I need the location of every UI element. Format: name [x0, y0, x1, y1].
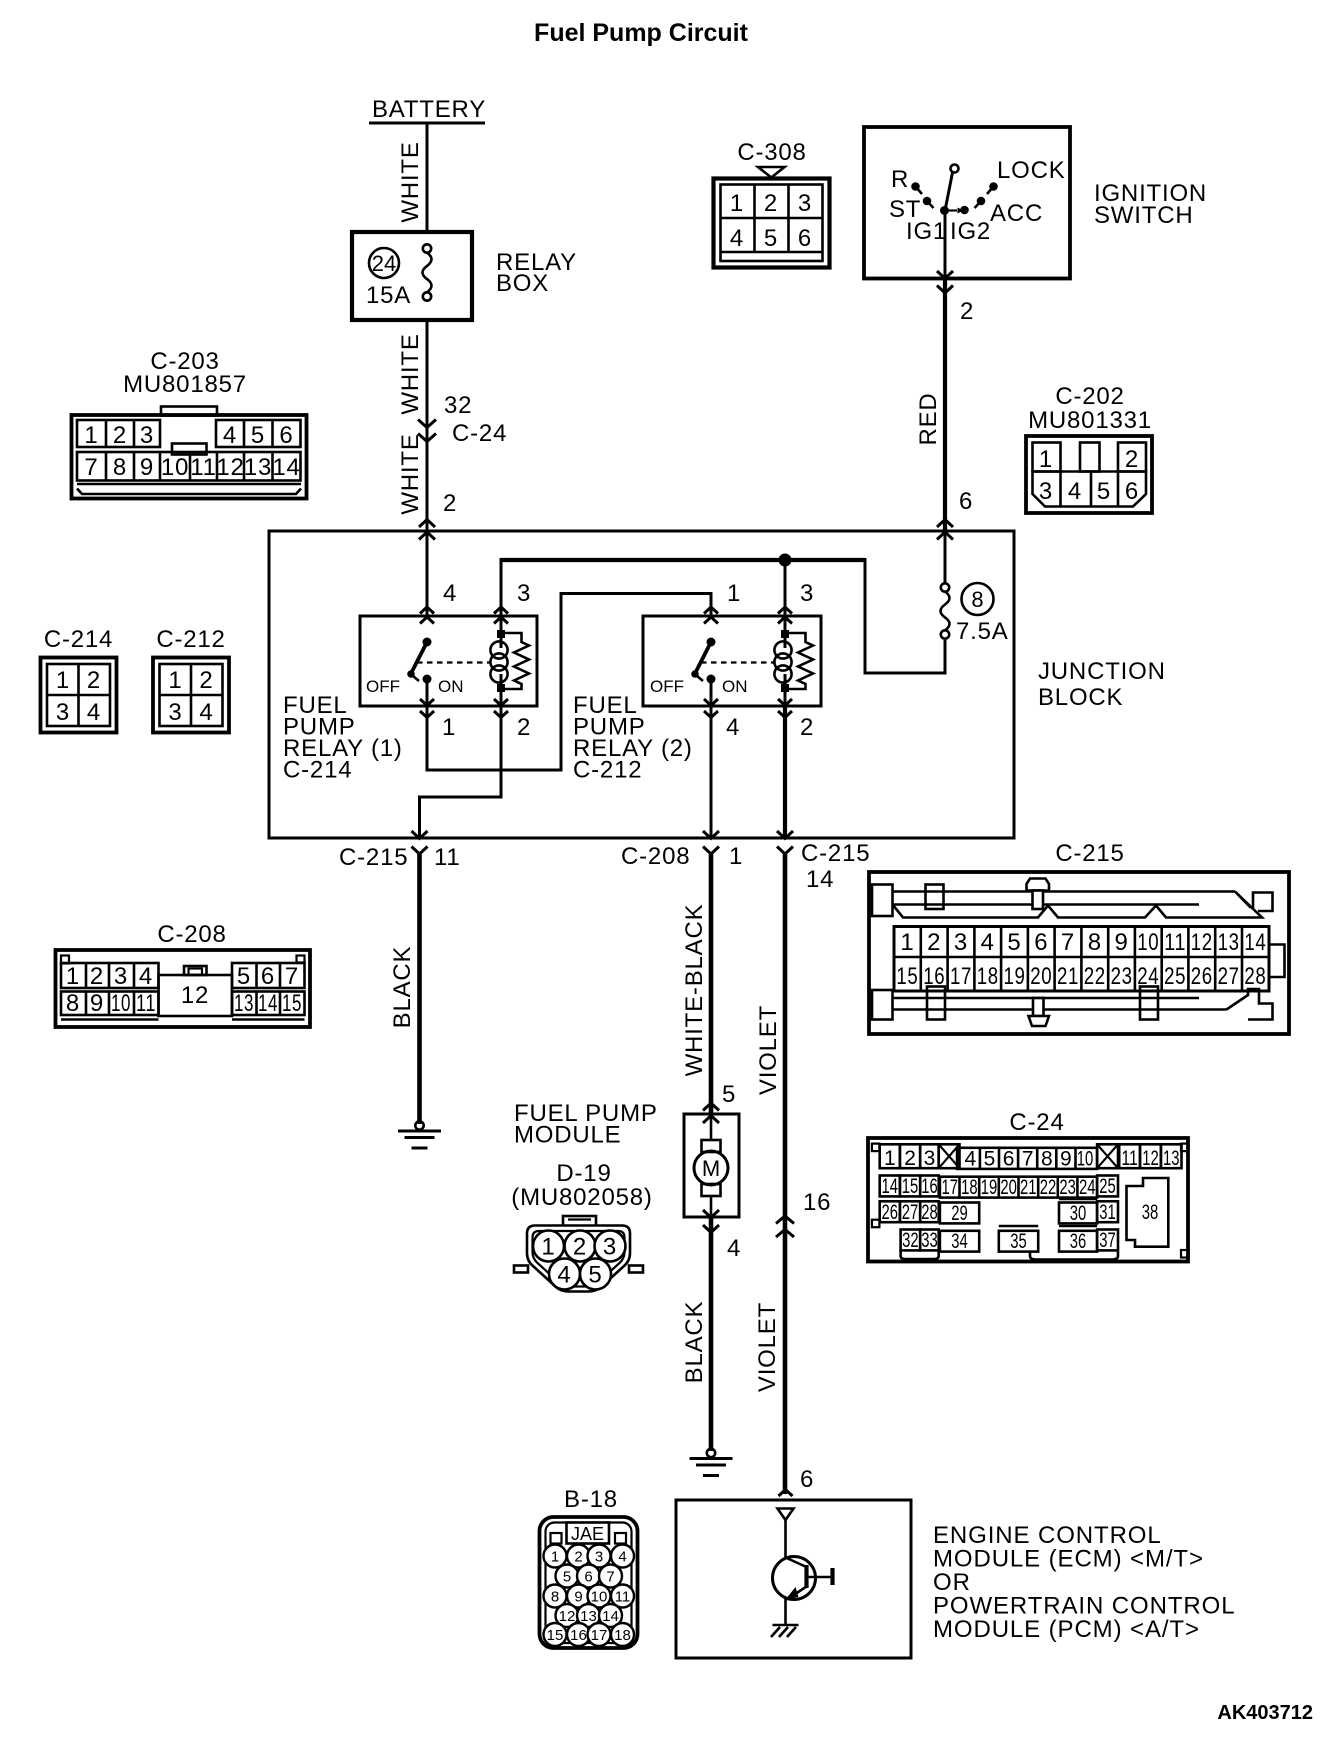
svg-text:ON: ON: [438, 677, 464, 696]
wire: bus to relay2 pin 3: [784, 560, 787, 616]
svg-text:9: 9: [90, 990, 104, 1017]
D-19 pin circles: [533, 1231, 626, 1290]
svg-text:38: 38: [1142, 1201, 1159, 1224]
svg-text:8: 8: [971, 587, 983, 612]
svg-text:5: 5: [563, 1569, 571, 1586]
B-18 pin circles row 5: [544, 1623, 635, 1646]
svg-text:ACC: ACC: [990, 200, 1043, 227]
svg-text:6: 6: [1034, 929, 1048, 956]
svg-text:C-208: C-208: [621, 843, 690, 870]
fuel pump relay 2 box: [643, 616, 821, 706]
C-24 pin cells row 1 (1 2 3): [880, 1144, 939, 1170]
svg-text:3: 3: [595, 1549, 603, 1566]
label WHITE (below C-24): [397, 433, 424, 514]
thick bus wire from relay coils to fuse 8: [501, 558, 945, 673]
svg-text:20: 20: [1030, 963, 1052, 990]
svg-text:3: 3: [140, 422, 154, 449]
relay 1 switch: [407, 638, 431, 707]
svg-text:9: 9: [140, 454, 154, 481]
svg-text:ON: ON: [722, 677, 748, 696]
C-214 pin numbers: [56, 667, 101, 726]
relay box: [352, 232, 472, 320]
ignition switch contact R: [911, 182, 922, 194]
chevrons: out of fuel pump module: [703, 1210, 719, 1233]
connector C-24 title (body): [1009, 1109, 1064, 1136]
svg-text:4: 4: [727, 1235, 741, 1262]
chevrons: red wire into junction block: [937, 520, 953, 540]
svg-text:30: 30: [1070, 1202, 1087, 1225]
svg-text:C-214: C-214: [44, 626, 113, 653]
svg-text:BLOCK: BLOCK: [1038, 684, 1123, 711]
C-24 pin cells row 2 (14 15 16): [880, 1175, 939, 1198]
svg-text:IG2: IG2: [950, 218, 991, 245]
C-203 pin cells row 1 left: [77, 420, 160, 447]
label VIOLET (upper): [755, 1005, 782, 1095]
svg-text:13: 13: [1163, 1147, 1180, 1170]
svg-text:19: 19: [1004, 963, 1026, 990]
pin 1 label (relay1): [442, 714, 456, 741]
pin 2 label (relay1): [517, 714, 531, 741]
svg-text:8: 8: [551, 1589, 559, 1606]
svg-text:12: 12: [216, 454, 244, 481]
svg-text:VIOLET: VIOLET: [755, 1005, 782, 1095]
svg-text:7: 7: [1022, 1148, 1034, 1171]
svg-text:21: 21: [1057, 963, 1079, 990]
ignition switch contact ST: [923, 197, 934, 208]
svg-text:6: 6: [1125, 478, 1139, 505]
svg-text:5: 5: [764, 225, 778, 252]
pin 4 label (fuel pump): [727, 1235, 741, 1262]
svg-text:29: 29: [951, 1202, 968, 1225]
svg-text:4: 4: [730, 225, 744, 252]
chevrons: relay2 pin 1: [704, 607, 718, 624]
wire: C-208 1 to fuel pump module (WHITE-BLACK): [709, 854, 714, 1114]
C-215 pin grid: [894, 927, 1269, 992]
battery terminal: [369, 96, 486, 123]
C-212 pin numbers: [168, 667, 213, 726]
C-208 center cell 12: [159, 966, 233, 1016]
ignition switch box: [864, 127, 1070, 279]
svg-text:16: 16: [570, 1627, 587, 1644]
connector C-208 body outline: [56, 950, 311, 1027]
C-24 pin cell 37: [1097, 1229, 1118, 1252]
svg-text:VIOLET: VIOLET: [754, 1302, 781, 1392]
wire: relay1 pin1 to relay2 pin1: [427, 594, 711, 771]
svg-text:5: 5: [237, 963, 251, 990]
svg-text:20: 20: [1000, 1176, 1017, 1199]
svg-text:2: 2: [573, 1234, 587, 1261]
fuel pump module box: [684, 1114, 739, 1217]
C-24 pin cells row 2 (17-24): [940, 1176, 1097, 1199]
pin 2 label (ignition exit): [960, 298, 974, 325]
svg-text:C-215: C-215: [1055, 840, 1124, 867]
svg-text:3: 3: [924, 1147, 936, 1170]
wire: bus to relay1 pin 3: [500, 558, 503, 616]
ignition switch contact ACC: [975, 197, 986, 208]
svg-text:(MU802058): (MU802058): [511, 1184, 652, 1211]
C-215 pin numbers row 2: [896, 963, 1266, 990]
pin 32 label: [444, 392, 472, 419]
svg-text:M: M: [702, 1156, 720, 1181]
pin 5 label (fuel pump): [722, 1081, 736, 1108]
svg-text:14: 14: [1244, 929, 1266, 956]
connector D-19 label: [511, 1160, 652, 1211]
svg-text:35: 35: [1010, 1230, 1027, 1253]
junction block name label: [1038, 658, 1166, 711]
svg-text:14: 14: [806, 866, 834, 893]
svg-text:28: 28: [1244, 963, 1266, 990]
label WHITE-BLACK: [681, 904, 708, 1077]
svg-text:11: 11: [434, 844, 461, 871]
svg-text:4: 4: [139, 963, 153, 990]
C-24 pin cell 35: [999, 1226, 1038, 1253]
svg-text:C-208: C-208: [157, 921, 226, 948]
wire: fuel pump to ground (BLACK): [709, 1217, 714, 1451]
connector C-203 body: [72, 407, 307, 499]
C-203 pin cells row 2: [77, 452, 301, 481]
C-208 pin cells top-left 1-4: [61, 963, 159, 988]
svg-text:WHITE: WHITE: [397, 333, 424, 414]
svg-text:MODULE: MODULE: [514, 1122, 621, 1149]
svg-text:32: 32: [902, 1229, 919, 1252]
pin 1 label (relay2 top): [727, 580, 741, 607]
junction exit label C-208 1: [621, 843, 743, 870]
svg-text:13: 13: [234, 990, 254, 1017]
ignition switch contact IG2 with direction arrow: [949, 206, 969, 215]
C-208 corner notches: [61, 956, 305, 964]
fuse 24 15A value label: [366, 282, 411, 309]
C-24 pin cells row 3 (26 27 28): [880, 1201, 939, 1224]
svg-text:3: 3: [168, 699, 182, 726]
svg-text:7: 7: [84, 454, 98, 481]
pin 6 label (ECM entry): [800, 1466, 814, 1493]
wire: ignition to junction block (RED): [943, 278, 947, 530]
svg-text:1: 1: [56, 667, 70, 694]
svg-text:4: 4: [443, 580, 457, 607]
svg-text:WHITE: WHITE: [397, 433, 424, 514]
svg-text:19: 19: [981, 1176, 998, 1199]
wire: relay2 pin4 to C-208 pin1 exit: [710, 706, 713, 838]
svg-text:OFF: OFF: [650, 677, 684, 696]
svg-text:C-24: C-24: [452, 420, 507, 447]
svg-text:4: 4: [965, 1148, 977, 1171]
svg-text:2: 2: [904, 1147, 916, 1170]
svg-text:25: 25: [1099, 1175, 1116, 1198]
C-24 pin cell 36: [1059, 1226, 1097, 1253]
svg-text:C-212: C-212: [156, 626, 225, 653]
relay 1 mechanical link (dashed): [417, 661, 490, 663]
wire: relay box to junction block (WHITE): [426, 320, 429, 530]
svg-text:14: 14: [602, 1608, 619, 1625]
relay 2 OFF ON labels: [650, 677, 748, 696]
connector B-18 title: [564, 1486, 618, 1513]
svg-text:4: 4: [726, 714, 740, 741]
chevron: violet wire into ECM: [779, 1490, 793, 1497]
pin 4 label (relay2 bottom): [726, 714, 740, 741]
pin 3 label (relay1): [517, 580, 531, 607]
svg-text:5: 5: [722, 1081, 736, 1108]
svg-text:3: 3: [114, 963, 128, 990]
chevrons: relay1 pin 1: [420, 699, 434, 718]
relay 2 mechanical link (dashed): [701, 661, 774, 663]
svg-text:15: 15: [282, 990, 302, 1017]
svg-text:10: 10: [161, 454, 189, 481]
connector C-215 title (body): [1055, 840, 1124, 867]
ECM box: [676, 1500, 911, 1658]
wire: transistor emitter to chassis ground: [784, 1598, 787, 1625]
svg-text:8: 8: [113, 454, 127, 481]
svg-text:4: 4: [557, 1262, 571, 1289]
svg-text:2: 2: [517, 714, 531, 741]
ignition switch name label: [1094, 180, 1207, 229]
svg-text:33: 33: [921, 1229, 938, 1252]
svg-text:10: 10: [1077, 1148, 1094, 1171]
svg-text:8: 8: [1088, 929, 1102, 956]
svg-text:15: 15: [902, 1175, 919, 1198]
svg-text:6: 6: [279, 422, 293, 449]
svg-text:26: 26: [1191, 963, 1213, 990]
chevrons: junction exit C-215 pin 14: [777, 831, 793, 854]
svg-text:34: 34: [951, 1230, 968, 1253]
B-18 pin circles row 3: [544, 1585, 635, 1608]
svg-text:16: 16: [803, 1189, 831, 1216]
svg-text:28: 28: [921, 1201, 938, 1224]
C-24 pin cells row 1 (4-10): [957, 1148, 1097, 1171]
svg-text:26: 26: [882, 1201, 899, 1224]
svg-text:24: 24: [1079, 1176, 1096, 1199]
fuel pump relay 1 box: [360, 616, 537, 706]
svg-text:18: 18: [977, 963, 999, 990]
junction block box: [269, 531, 1014, 838]
svg-text:3: 3: [800, 580, 814, 607]
connector C-203 title: [123, 348, 247, 398]
C-24 pin cell 30: [1059, 1199, 1097, 1225]
C-203 pin numbers: [84, 422, 300, 481]
C-24 pin cell 25: [1097, 1175, 1118, 1198]
svg-text:D-19: D-19: [556, 1160, 611, 1187]
connector C-202 title: [1028, 383, 1152, 434]
ignition switch contact LOCK: [987, 182, 998, 194]
pin 3 label (relay2 top): [800, 580, 814, 607]
C-215 right latch: [1269, 945, 1285, 978]
svg-text:2: 2: [1125, 446, 1139, 473]
svg-text:6: 6: [1003, 1148, 1015, 1171]
C-208 pin cells top-right 5-7: [232, 963, 305, 988]
svg-text:15: 15: [547, 1627, 564, 1644]
connector D-19 body: [514, 1216, 643, 1292]
C-215 bottom clip: [1029, 998, 1050, 1026]
connector C-308 title: [737, 139, 806, 166]
pin 2 label (junction entry): [443, 490, 457, 517]
connector B-18 body: [540, 1517, 638, 1648]
connector C-308 pointer triangle: [758, 167, 785, 178]
svg-text:8: 8: [1041, 1148, 1053, 1171]
relay 2 switch: [691, 638, 715, 707]
svg-text:1: 1: [1039, 446, 1053, 473]
svg-text:17: 17: [591, 1627, 608, 1644]
svg-text:2: 2: [113, 422, 127, 449]
C-202 pin numbers: [1039, 446, 1139, 505]
svg-text:C-202: C-202: [1055, 383, 1124, 410]
svg-text:9: 9: [1060, 1148, 1072, 1171]
svg-text:RED: RED: [915, 392, 942, 445]
transistor Q (ECM driver): [773, 1557, 833, 1600]
svg-text:13: 13: [244, 454, 272, 481]
ECM name label: [933, 1522, 1235, 1643]
wire: C-215 11 to ground (BLACK): [417, 854, 422, 1124]
svg-text:11: 11: [190, 454, 217, 481]
svg-text:6: 6: [959, 488, 973, 515]
relay 2 coil shunt resistor: [785, 633, 813, 689]
C-203 latch: [172, 444, 207, 455]
pin 2 label (relay2 bottom): [800, 714, 814, 741]
connector C-24 body outline: [868, 1138, 1188, 1262]
svg-text:14: 14: [882, 1175, 899, 1198]
svg-text:11: 11: [615, 1589, 631, 1606]
svg-text:15A: 15A: [366, 282, 411, 309]
C-203 pin cells row 1 right: [216, 420, 301, 447]
svg-text:3: 3: [56, 699, 70, 726]
C-24 pin cell 29: [940, 1202, 979, 1225]
svg-text:2: 2: [800, 714, 814, 741]
wire: ignition switch internal to pin 2: [944, 211, 947, 279]
svg-text:15: 15: [896, 963, 918, 990]
svg-text:5: 5: [251, 422, 265, 449]
svg-text:4: 4: [618, 1549, 626, 1566]
chevrons: relay1 pin 3: [494, 607, 508, 624]
C-24 cell 38: [1127, 1178, 1169, 1247]
svg-text:2: 2: [574, 1549, 582, 1566]
svg-text:C-24: C-24: [1009, 1109, 1064, 1136]
C-215 pin numbers row 1: [900, 929, 1266, 956]
svg-text:2: 2: [90, 963, 104, 990]
label WHITE (above C-24): [397, 333, 424, 414]
relay 1 coil shunt resistor: [501, 633, 529, 689]
C-208 pin cells bottom-left 8-11: [61, 992, 159, 1020]
svg-text:27: 27: [1218, 963, 1240, 990]
svg-text:1: 1: [84, 422, 98, 449]
svg-text:18: 18: [614, 1627, 631, 1644]
svg-text:2: 2: [927, 929, 941, 956]
C-24 keying X cell left: [939, 1144, 960, 1168]
ignition position labels: [889, 157, 1066, 245]
chevrons: ignition switch pin 2 exit: [937, 271, 953, 293]
C-24 pin cell 31: [1097, 1201, 1118, 1224]
fuel pump motor M: [694, 1114, 728, 1217]
svg-text:MODULE (PCM) <A/T>: MODULE (PCM) <A/T>: [933, 1616, 1200, 1643]
svg-text:7.5A: 7.5A: [956, 618, 1009, 645]
C-208 pin cells bottom-right 13-15: [232, 992, 305, 1020]
svg-text:5: 5: [1097, 478, 1111, 505]
svg-text:BLACK: BLACK: [681, 1301, 708, 1384]
fuse element (relay box): [423, 244, 432, 300]
svg-text:9: 9: [574, 1589, 582, 1606]
svg-text:B-18: B-18: [564, 1486, 618, 1513]
svg-text:4: 4: [87, 699, 101, 726]
svg-text:C-215: C-215: [801, 840, 870, 867]
pin 16 label (inline connector): [803, 1189, 831, 1216]
svg-text:7: 7: [606, 1569, 614, 1586]
svg-text:MODULE (ECM) <M/T>: MODULE (ECM) <M/T>: [933, 1546, 1204, 1573]
svg-text:11: 11: [136, 990, 156, 1017]
wire: C-215 14 to ECM (VIOLET): [783, 854, 788, 1494]
svg-text:18: 18: [961, 1176, 978, 1199]
svg-text:10: 10: [111, 990, 131, 1017]
svg-text:2: 2: [764, 190, 778, 217]
relay 1 OFF ON labels: [366, 677, 464, 696]
svg-text:JAE: JAE: [571, 1524, 604, 1544]
chassis ground (ECM): [771, 1625, 799, 1637]
svg-text:2: 2: [443, 490, 457, 517]
connector C-24 inline label: [452, 420, 507, 447]
svg-text:C-215: C-215: [339, 844, 408, 871]
C-24 keying X cell right: [1097, 1144, 1118, 1168]
B-18 pin circles row 1: [544, 1545, 635, 1568]
svg-text:23: 23: [1111, 963, 1133, 990]
svg-text:IG1: IG1: [906, 218, 947, 245]
B-18 pin circles row 2: [556, 1565, 623, 1588]
fuse 24 circle label: [369, 248, 399, 278]
chevrons: relay1 pin 2: [494, 699, 508, 718]
junction exit label C-215 14: [801, 840, 870, 893]
svg-text:17: 17: [950, 963, 972, 990]
svg-text:2: 2: [960, 298, 974, 325]
svg-text:32: 32: [444, 392, 472, 419]
pin 6 label (junction entry): [959, 488, 973, 515]
svg-text:5: 5: [1007, 929, 1021, 956]
svg-text:37: 37: [1099, 1229, 1116, 1252]
node: bus junction dot: [779, 554, 792, 567]
svg-text:6: 6: [261, 963, 275, 990]
svg-text:SWITCH: SWITCH: [1094, 202, 1193, 229]
svg-text:7: 7: [1061, 929, 1075, 956]
svg-text:AK403712: AK403712: [1217, 1702, 1313, 1724]
svg-text:8: 8: [66, 990, 80, 1017]
svg-text:4: 4: [1068, 478, 1082, 505]
svg-text:1: 1: [66, 963, 80, 990]
svg-text:1: 1: [729, 843, 743, 870]
svg-text:C-212: C-212: [573, 757, 642, 784]
chevrons: relay1 pin 4: [420, 607, 434, 624]
svg-text:3: 3: [798, 190, 812, 217]
title: Fuel Pump Circuit: [534, 19, 749, 47]
fuse 8 7.5A value label: [956, 618, 1009, 645]
ECM input triangle: [778, 1509, 794, 1521]
ground (body ground, black wire): [398, 1121, 441, 1148]
connector C-212 body: [153, 658, 229, 733]
svg-text:3: 3: [1039, 478, 1053, 505]
svg-text:12: 12: [181, 982, 209, 1009]
svg-text:OFF: OFF: [366, 677, 400, 696]
chevrons: relay2 pin 4: [704, 699, 718, 718]
svg-text:6: 6: [800, 1466, 814, 1493]
svg-text:12: 12: [559, 1608, 576, 1625]
label RED: [915, 392, 942, 445]
wire: battery to relay box (WHITE): [426, 123, 429, 232]
svg-text:3: 3: [603, 1234, 617, 1261]
svg-text:25: 25: [1164, 963, 1186, 990]
wire: triangle to transistor: [784, 1520, 787, 1559]
connector C-202 body: [1026, 436, 1152, 513]
C-24 pin cells row 4 (32 33): [901, 1229, 939, 1259]
svg-text:1: 1: [551, 1549, 559, 1566]
B-18 pin circles row 4: [556, 1604, 623, 1627]
svg-text:12: 12: [1142, 1147, 1159, 1170]
chevrons: into fuel pump module: [703, 1103, 719, 1123]
relay 2 coil: [774, 616, 791, 706]
svg-text:36: 36: [1070, 1230, 1087, 1253]
junction exit label C-215 11: [339, 844, 461, 871]
